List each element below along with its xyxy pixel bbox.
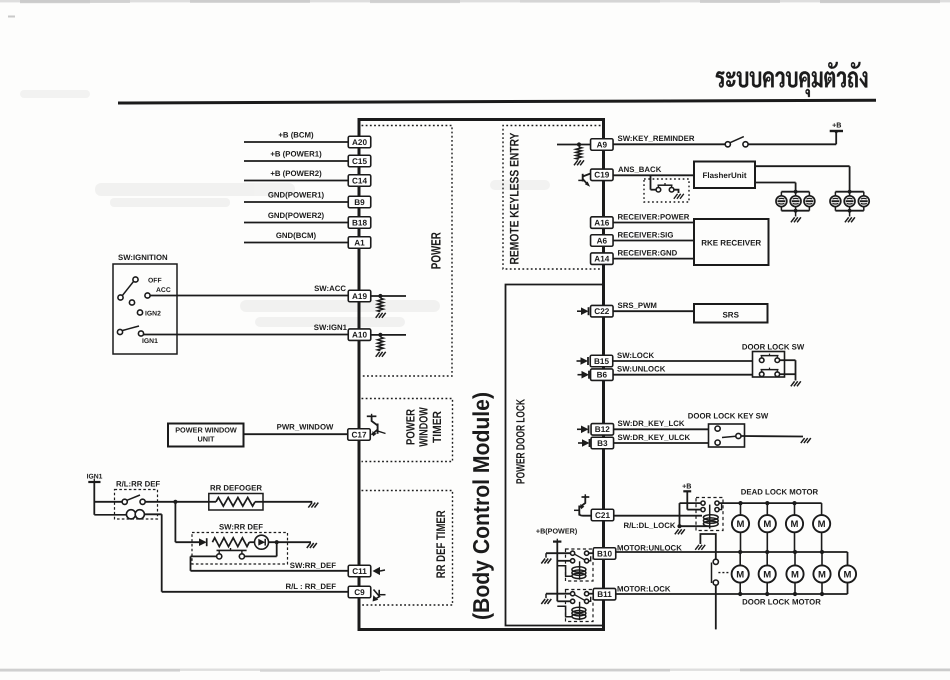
svg-text:IGN2: IGN2 <box>145 311 161 318</box>
svg-text:SW:IGN1: SW:IGN1 <box>314 323 348 332</box>
svg-text:B11: B11 <box>597 590 612 599</box>
svg-text:MOTOR:LOCK: MOTOR:LOCK <box>617 585 671 594</box>
svg-text:POWER: POWER <box>404 409 418 445</box>
svg-text:C19: C19 <box>594 171 609 180</box>
svg-text:A9: A9 <box>597 140 608 149</box>
svg-text:A6: A6 <box>597 236 608 245</box>
svg-text:POWER DOOR LOCK: POWER DOOR LOCK <box>513 399 527 484</box>
svg-text:B6: B6 <box>597 371 608 380</box>
svg-text:POWER WINDOW: POWER WINDOW <box>175 426 237 435</box>
svg-text:SW:RR_DEF: SW:RR_DEF <box>290 561 336 570</box>
svg-text:FlasherUnit: FlasherUnit <box>702 171 746 180</box>
svg-text:WINDOW: WINDOW <box>417 407 431 447</box>
svg-text:+B: +B <box>682 482 691 491</box>
svg-text:GND(POWER1): GND(POWER1) <box>268 191 325 200</box>
svg-text:RECEIVER:SIG: RECEIVER:SIG <box>618 231 674 240</box>
svg-text:REMOTE KEYLESS ENTRY: REMOTE KEYLESS ENTRY <box>507 132 521 265</box>
svg-text:A20: A20 <box>352 138 367 147</box>
svg-text:+B (BCM): +B (BCM) <box>278 131 314 140</box>
svg-text:SW:DR_KEY_LCK: SW:DR_KEY_LCK <box>618 419 685 428</box>
svg-text:M: M <box>763 569 771 580</box>
svg-text:M: M <box>818 569 826 580</box>
svg-text:A10: A10 <box>352 331 367 340</box>
svg-text:A1: A1 <box>354 238 365 247</box>
svg-text:DOOR LOCK SW: DOOR LOCK SW <box>742 343 805 352</box>
svg-text:ANS_BACK: ANS_BACK <box>618 165 662 174</box>
svg-text:(Body Control Module): (Body Control Module) <box>468 392 494 620</box>
svg-text:OFF: OFF <box>148 278 162 285</box>
svg-text:A16: A16 <box>594 219 609 228</box>
svg-text:B10: B10 <box>597 549 612 558</box>
svg-text:ACC: ACC <box>156 287 171 294</box>
svg-text:M: M <box>763 519 771 530</box>
svg-text:DOOR LOCK MOTOR: DOOR LOCK MOTOR <box>742 598 821 607</box>
svg-text:SW:ACC: SW:ACC <box>314 284 346 293</box>
svg-text:RR DEFOGER: RR DEFOGER <box>210 484 262 493</box>
svg-text:UNIT: UNIT <box>197 435 215 444</box>
svg-text:PWR_WINDOW: PWR_WINDOW <box>277 423 334 432</box>
svg-text:SRS: SRS <box>722 311 739 320</box>
svg-text:M: M <box>737 519 745 530</box>
svg-text:+B (POWER2): +B (POWER2) <box>270 169 322 178</box>
svg-text:M: M <box>791 519 799 530</box>
svg-text:POWER: POWER <box>428 232 443 269</box>
svg-text:R/L:DL_LOCK: R/L:DL_LOCK <box>624 521 676 530</box>
svg-text:A19: A19 <box>352 292 367 301</box>
svg-text:C22: C22 <box>594 307 609 316</box>
svg-text:M: M <box>736 569 744 580</box>
svg-text:A14: A14 <box>594 255 609 264</box>
svg-text:R/L : RR_DEF: R/L : RR_DEF <box>285 582 336 591</box>
svg-text:RECEIVER:POWER: RECEIVER:POWER <box>618 213 690 222</box>
svg-text:SW:UNLOCK: SW:UNLOCK <box>617 365 666 374</box>
svg-text:DEAD LOCK MOTOR: DEAD LOCK MOTOR <box>741 488 819 497</box>
svg-text:+B(POWER): +B(POWER) <box>536 527 578 536</box>
svg-text:RR DEF TIMER: RR DEF TIMER <box>434 510 448 578</box>
svg-text:RKE RECEIVER: RKE RECEIVER <box>701 239 761 248</box>
svg-text:C14: C14 <box>352 176 367 185</box>
svg-text:SW:DR_KEY_ULCK: SW:DR_KEY_ULCK <box>618 433 691 442</box>
svg-text:C17: C17 <box>351 430 366 439</box>
svg-text:M: M <box>818 519 826 530</box>
svg-text:B18: B18 <box>352 218 367 227</box>
svg-text:DOOR LOCK KEY SW: DOOR LOCK KEY SW <box>688 412 769 421</box>
svg-text:C11: C11 <box>352 567 367 576</box>
svg-text:C9: C9 <box>354 588 365 597</box>
svg-text:SW:IGNITION: SW:IGNITION <box>118 253 168 262</box>
svg-text:GND(BCM): GND(BCM) <box>276 231 317 240</box>
svg-text:B9: B9 <box>354 198 365 207</box>
svg-text:B12: B12 <box>595 425 610 434</box>
svg-text:C15: C15 <box>352 157 367 166</box>
svg-text:RECEIVER:GND: RECEIVER:GND <box>618 249 678 258</box>
svg-text:M: M <box>791 569 799 580</box>
svg-text:SW:LOCK: SW:LOCK <box>617 351 654 360</box>
svg-text:B3: B3 <box>597 439 608 448</box>
svg-text:SRS_PWM: SRS_PWM <box>618 301 657 310</box>
svg-text:TIMER: TIMER <box>430 411 444 443</box>
svg-text:+B (POWER1): +B (POWER1) <box>270 150 322 159</box>
svg-text:IGN1: IGN1 <box>142 338 158 345</box>
svg-text:M: M <box>844 569 852 580</box>
svg-text:+B: +B <box>832 121 841 130</box>
svg-text:R/L:RR DEF: R/L:RR DEF <box>116 480 160 489</box>
svg-text:C21: C21 <box>595 511 610 520</box>
svg-text:B15: B15 <box>594 357 609 366</box>
svg-text:GND(POWER2): GND(POWER2) <box>268 211 325 220</box>
svg-text:SW:RR DEF: SW:RR DEF <box>219 523 263 532</box>
svg-text:SW:KEY_REMINDER: SW:KEY_REMINDER <box>618 134 695 143</box>
